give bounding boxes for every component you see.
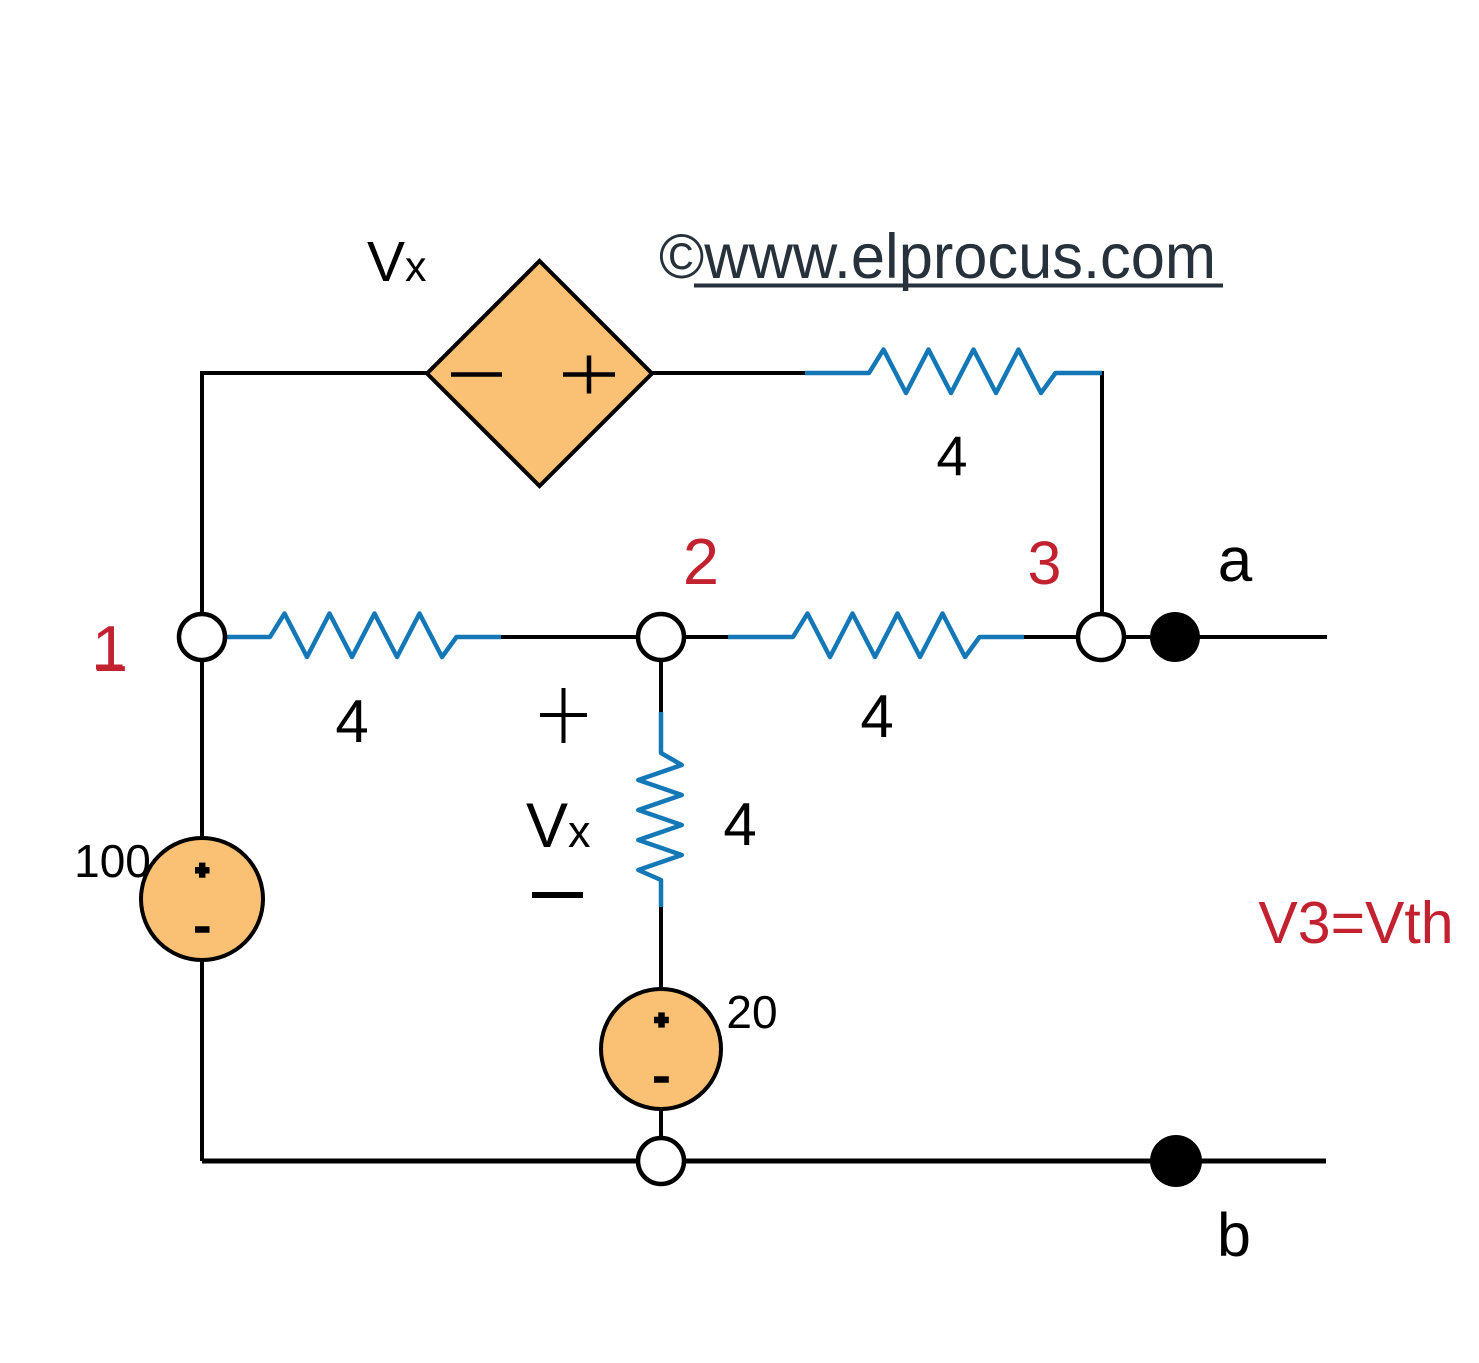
svg-text:4: 4 — [723, 791, 756, 858]
svg-text:4: 4 — [936, 424, 967, 487]
svg-text:2: 2 — [683, 525, 719, 598]
svg-text:V3=Vth: V3=Vth — [1258, 890, 1453, 956]
svg-text:3: 3 — [1028, 529, 1062, 597]
svg-text:1: 1 — [92, 612, 128, 685]
svg-text:b: b — [1217, 1201, 1251, 1269]
svg-text:©www.elprocus.com: ©www.elprocus.com — [659, 222, 1216, 292]
svg-text:a: a — [1218, 526, 1253, 595]
svg-text:4: 4 — [335, 688, 368, 755]
svg-text:100: 100 — [74, 835, 151, 887]
svg-text:20: 20 — [726, 986, 777, 1038]
svg-text:4: 4 — [860, 683, 893, 750]
